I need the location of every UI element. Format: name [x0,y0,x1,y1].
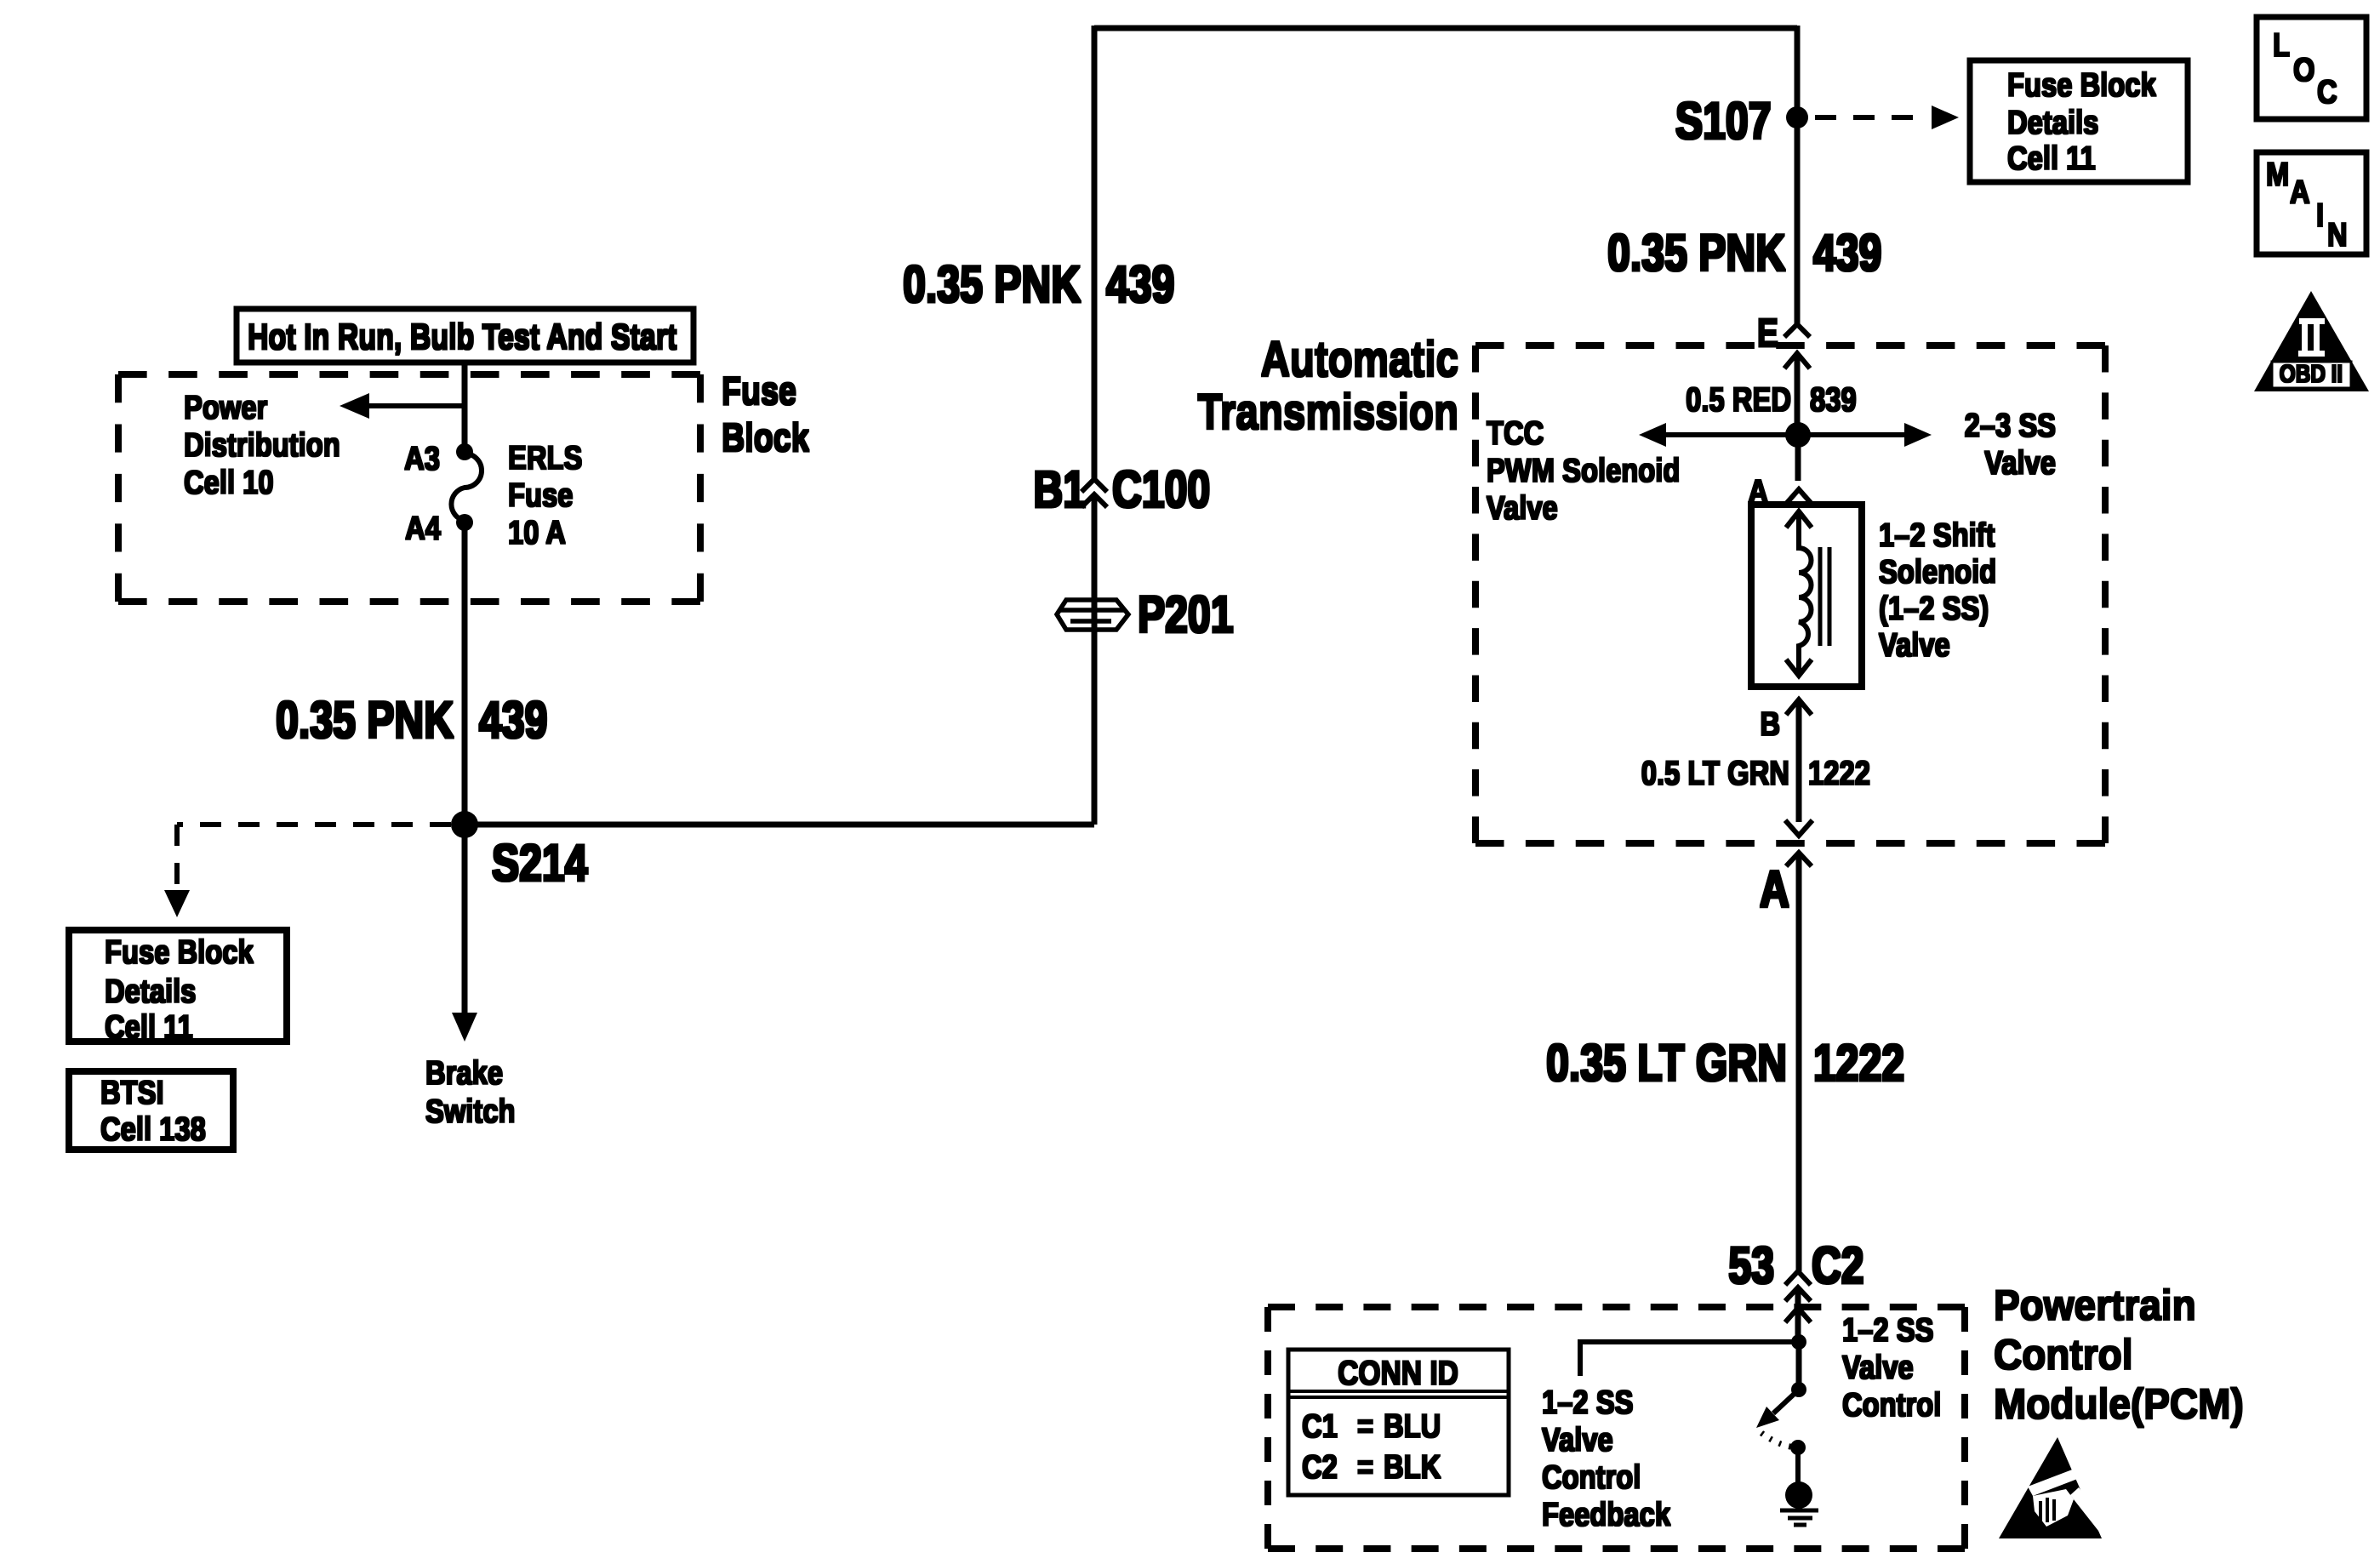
svg-text:Details: Details [105,972,196,1009]
svg-text:O: O [2293,50,2314,88]
svg-text:Switch: Switch [425,1092,516,1129]
connector B1 C100 [1033,460,1210,519]
connector A inline below transmission box [1760,853,1812,1271]
wire label 0.35 PNK 439 (left) [276,691,547,750]
CONN ID table [1288,1350,1509,1495]
svg-text:0.5 RED: 0.5 RED [1686,380,1791,419]
svg-text:Cell 11: Cell 11 [105,1007,193,1045]
svg-text:0.35 PNK: 0.35 PNK [903,255,1081,314]
svg-text:A4: A4 [405,509,441,546]
fuse ERLS 10A with terminals A3 A4 [404,438,582,551]
svg-text:=: = [1357,1447,1373,1485]
svg-text:Cell 138: Cell 138 [100,1110,206,1147]
1-2 shift solenoid box with coil [1751,505,1996,687]
arrow up into transmission box [1784,353,1810,428]
svg-text:A3: A3 [404,439,440,477]
svg-text:TCC: TCC [1487,414,1544,451]
svg-text:Valve: Valve [1487,488,1558,526]
wire label 0.5 LT GRN 1222 [1641,754,1870,792]
connector 53 C2 [1728,1236,1863,1307]
svg-text:N: N [2327,215,2348,253]
svg-text:839: 839 [1810,380,1857,419]
svg-text:C: C [2317,72,2337,110]
svg-text:Control: Control [1842,1385,1941,1423]
ground symbol [1780,1447,1818,1525]
svg-text:0.35 PNK: 0.35 PNK [1607,224,1785,283]
junction node to TCC PWM and 2-3 SS valves with double arrow [1487,406,2056,526]
svg-text:Valve: Valve [1842,1348,1914,1385]
reference box: Fuse Block Details Cell 11 (top right) [1970,60,2188,182]
label Fuse Block [722,368,809,459]
svg-text:ERLS: ERLS [508,438,582,476]
svg-text:Fuse: Fuse [722,368,796,412]
svg-text:Details: Details [2007,103,2098,140]
ESD symbol [1999,1437,2109,1538]
svg-text:Fuse: Fuse [508,476,573,513]
svg-text:1–2 SS: 1–2 SS [1842,1310,1933,1348]
svg-text:M: M [2266,155,2289,192]
grid location box LOC [2257,17,2366,119]
reference box Fuse Block Details Cell 11 (left) [69,930,287,1046]
svg-text:439: 439 [1813,224,1881,283]
svg-text:53: 53 [1728,1236,1774,1295]
svg-text:Solenoid: Solenoid [1879,552,1996,590]
node S107 [1675,92,1808,151]
svg-text:(1–2 SS): (1–2 SS) [1879,589,1989,626]
svg-text:10 A: 10 A [508,513,566,551]
pin A connector of solenoid [1748,435,1812,511]
svg-text:0.35 PNK: 0.35 PNK [276,691,454,750]
svg-text:C1: C1 [1302,1407,1338,1444]
svg-text:BTSI: BTSI [100,1073,164,1110]
wire label 0.35 PNK 439 (middle) [903,255,1174,314]
svg-text:C2: C2 [1302,1447,1338,1485]
svg-text:P201: P201 [1138,585,1234,644]
wire label 0.35 LT GRN 1222 [1546,1034,1904,1093]
label Powertrain Control Module(PCM) [1994,1282,2244,1428]
svg-text:CONN ID: CONN ID [1338,1354,1458,1391]
wire: fuse input from Hot box down to A3 [462,362,468,452]
svg-text:C2: C2 [1812,1236,1864,1295]
svg-text:Valve: Valve [1542,1420,1613,1458]
switch: dot2, arm with arrowhead, dotted travel arc, dot3 [1756,1342,1806,1455]
svg-text:1–2 Shift: 1–2 Shift [1879,516,1995,553]
pin B connector of solenoid [1760,699,1812,822]
grommet P201 [1057,585,1234,644]
svg-text:Automatic: Automatic [1261,333,1458,388]
svg-text:A: A [1760,860,1789,919]
svg-text:Cell 11: Cell 11 [2007,139,2096,176]
label 1-2 SS Valve Control Feedback [1542,1383,1671,1533]
svg-text:L: L [2273,26,2290,63]
svg-text:S214: S214 [492,834,588,893]
svg-text:Cell 10: Cell 10 [184,463,274,500]
svg-text:1–2 SS: 1–2 SS [1542,1383,1633,1420]
wire: right vertical PNK 439 from top bus to S107 and E [1795,26,1801,324]
wire: dashed reference arrow from S107 to Fuse Block Details box [1815,106,1959,129]
svg-text:Control: Control [1542,1458,1641,1495]
svg-text:Control: Control [1994,1332,2132,1378]
svg-text:Block: Block [722,415,809,459]
grid location box MAIN [2257,152,2366,254]
svg-text:2–3 SS: 2–3 SS [1965,406,2056,443]
svg-text:B: B [1760,705,1780,742]
svg-text:Feedback: Feedback [1542,1495,1671,1533]
svg-text:A: A [2290,173,2310,210]
svg-text:0.35 LT GRN: 0.35 LT GRN [1546,1034,1787,1093]
wire: horizontal from S214 to C100 branch [465,822,1094,828]
svg-text:Distribution: Distribution [184,425,340,463]
reference box BTSI Cell 138 [69,1071,233,1150]
node S214 [451,811,588,892]
label 1-2 SS Valve Control [1842,1310,1941,1423]
brake switch arrow and label [425,1013,516,1130]
svg-text:I: I [2316,196,2324,233]
feedback wire from dot1 [1580,1342,1799,1376]
svg-text:E: E [1757,311,1778,354]
wire: top horizontal 0.35 PNK 439 bus [1094,26,1797,31]
connector E at transmission box [1757,311,1810,354]
svg-text:1222: 1222 [1813,1034,1904,1093]
svg-text:Valve: Valve [1984,443,2056,481]
svg-text:Fuse Block: Fuse Block [105,933,254,970]
arrow down at transmission box bottom [1785,820,1812,836]
svg-text:Transmission: Transmission [1198,385,1458,441]
label box: Hot In Run, Bulb Test And Start [237,309,693,362]
svg-text:Fuse Block: Fuse Block [2007,66,2157,103]
svg-text:Brake: Brake [425,1053,503,1091]
power distribution arrow [340,393,465,419]
svg-text:OBD II: OBD II [2280,360,2343,387]
svg-text:BLU: BLU [1384,1407,1441,1444]
dashed reference arrow from S214 down-left [164,825,451,917]
wire: fuse output vertical PNK 439 down to brake switch [462,522,468,1014]
svg-text:C100: C100 [1112,460,1210,519]
arrow up inside PCM box [1785,1308,1811,1342]
svg-text:Powertrain: Powertrain [1994,1282,2196,1329]
symbol OBD II triangle [2254,291,2369,391]
svg-text:1222: 1222 [1808,754,1870,792]
svg-text:Valve: Valve [1879,625,1950,663]
wire label 0.5 RED 839 [1686,380,1857,419]
svg-text:=: = [1357,1407,1373,1444]
svg-text:0.5 LT GRN: 0.5 LT GRN [1641,754,1789,792]
svg-text:439: 439 [1106,255,1174,314]
label Power Distribution Cell 10 [184,388,340,500]
fuse block dashed box [118,374,700,602]
svg-text:PWM Solenoid: PWM Solenoid [1487,451,1680,488]
PCM dashed box [1268,1307,1965,1549]
svg-text:BLK: BLK [1384,1447,1441,1485]
wire label 0.35 PNK 439 (right) [1607,224,1881,283]
svg-text:439: 439 [479,691,547,750]
label Automatic Transmission [1198,333,1458,441]
automatic transmission dashed box [1475,345,2105,843]
svg-text:S107: S107 [1675,92,1772,151]
svg-text:Power: Power [184,388,267,425]
wire: left vertical PNK 439 branch to C100 [1092,26,1098,825]
node junction dot1 in PCM [1791,1334,1806,1350]
svg-text:Module(PCM): Module(PCM) [1994,1381,2244,1428]
svg-text:B1: B1 [1033,460,1086,519]
svg-text:Hot In Run, Bulb Test And Star: Hot In Run, Bulb Test And Start [248,317,677,357]
